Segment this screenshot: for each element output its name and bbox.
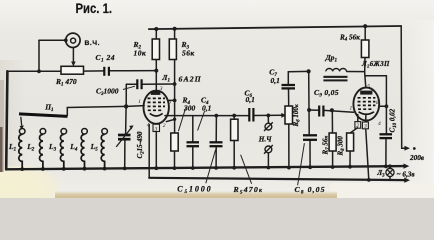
svg-text:С8 0,05: С8 0,05 [295,185,326,196]
svg-text:С1 24: С1 24 [96,53,116,64]
svg-text:0,1: 0,1 [271,76,280,85]
svg-text:5: 5 [367,83,370,89]
svg-text:4: 4 [147,122,150,129]
svg-text:0,1: 0,1 [246,95,255,104]
svg-text:4: 4 [378,120,381,127]
svg-text:10к: 10к [134,49,147,58]
svg-text:Л26Ж3П: Л26Ж3П [361,61,390,68]
svg-text:С31000: С31000 [96,87,119,98]
svg-text:Н.Ч: Н.Ч [258,136,272,144]
svg-text:56к: 56к [182,49,195,58]
svg-text:С9 0,05: С9 0,05 [314,88,339,99]
svg-text:2: 2 [356,123,359,129]
svg-text:R1 470: R1 470 [55,77,77,88]
svg-text:3: 3 [154,126,158,132]
svg-text:3: 3 [363,124,367,130]
svg-text:6А2П: 6А2П [179,75,202,84]
svg-text:1: 1 [350,105,353,111]
svg-text:300: 300 [183,104,196,113]
svg-text:6: 6 [376,100,379,106]
svg-text:В.Ч.: В.Ч. [85,40,100,47]
svg-text:R5470к: R5470к [233,185,264,196]
svg-text:~ 6,3в: ~ 6,3в [397,170,416,178]
svg-text:С51000: С51000 [177,184,212,195]
svg-text:200в: 200в [409,154,425,162]
svg-text:Рис. 1.: Рис. 1. [76,1,113,16]
svg-text:6: 6 [168,99,171,105]
svg-text:0,1: 0,1 [202,104,211,113]
svg-text:R4 56к: R4 56к [339,33,360,42]
svg-text:2: 2 [163,123,166,129]
svg-text:3: 3 [159,86,163,92]
svg-text:1: 1 [138,99,141,105]
